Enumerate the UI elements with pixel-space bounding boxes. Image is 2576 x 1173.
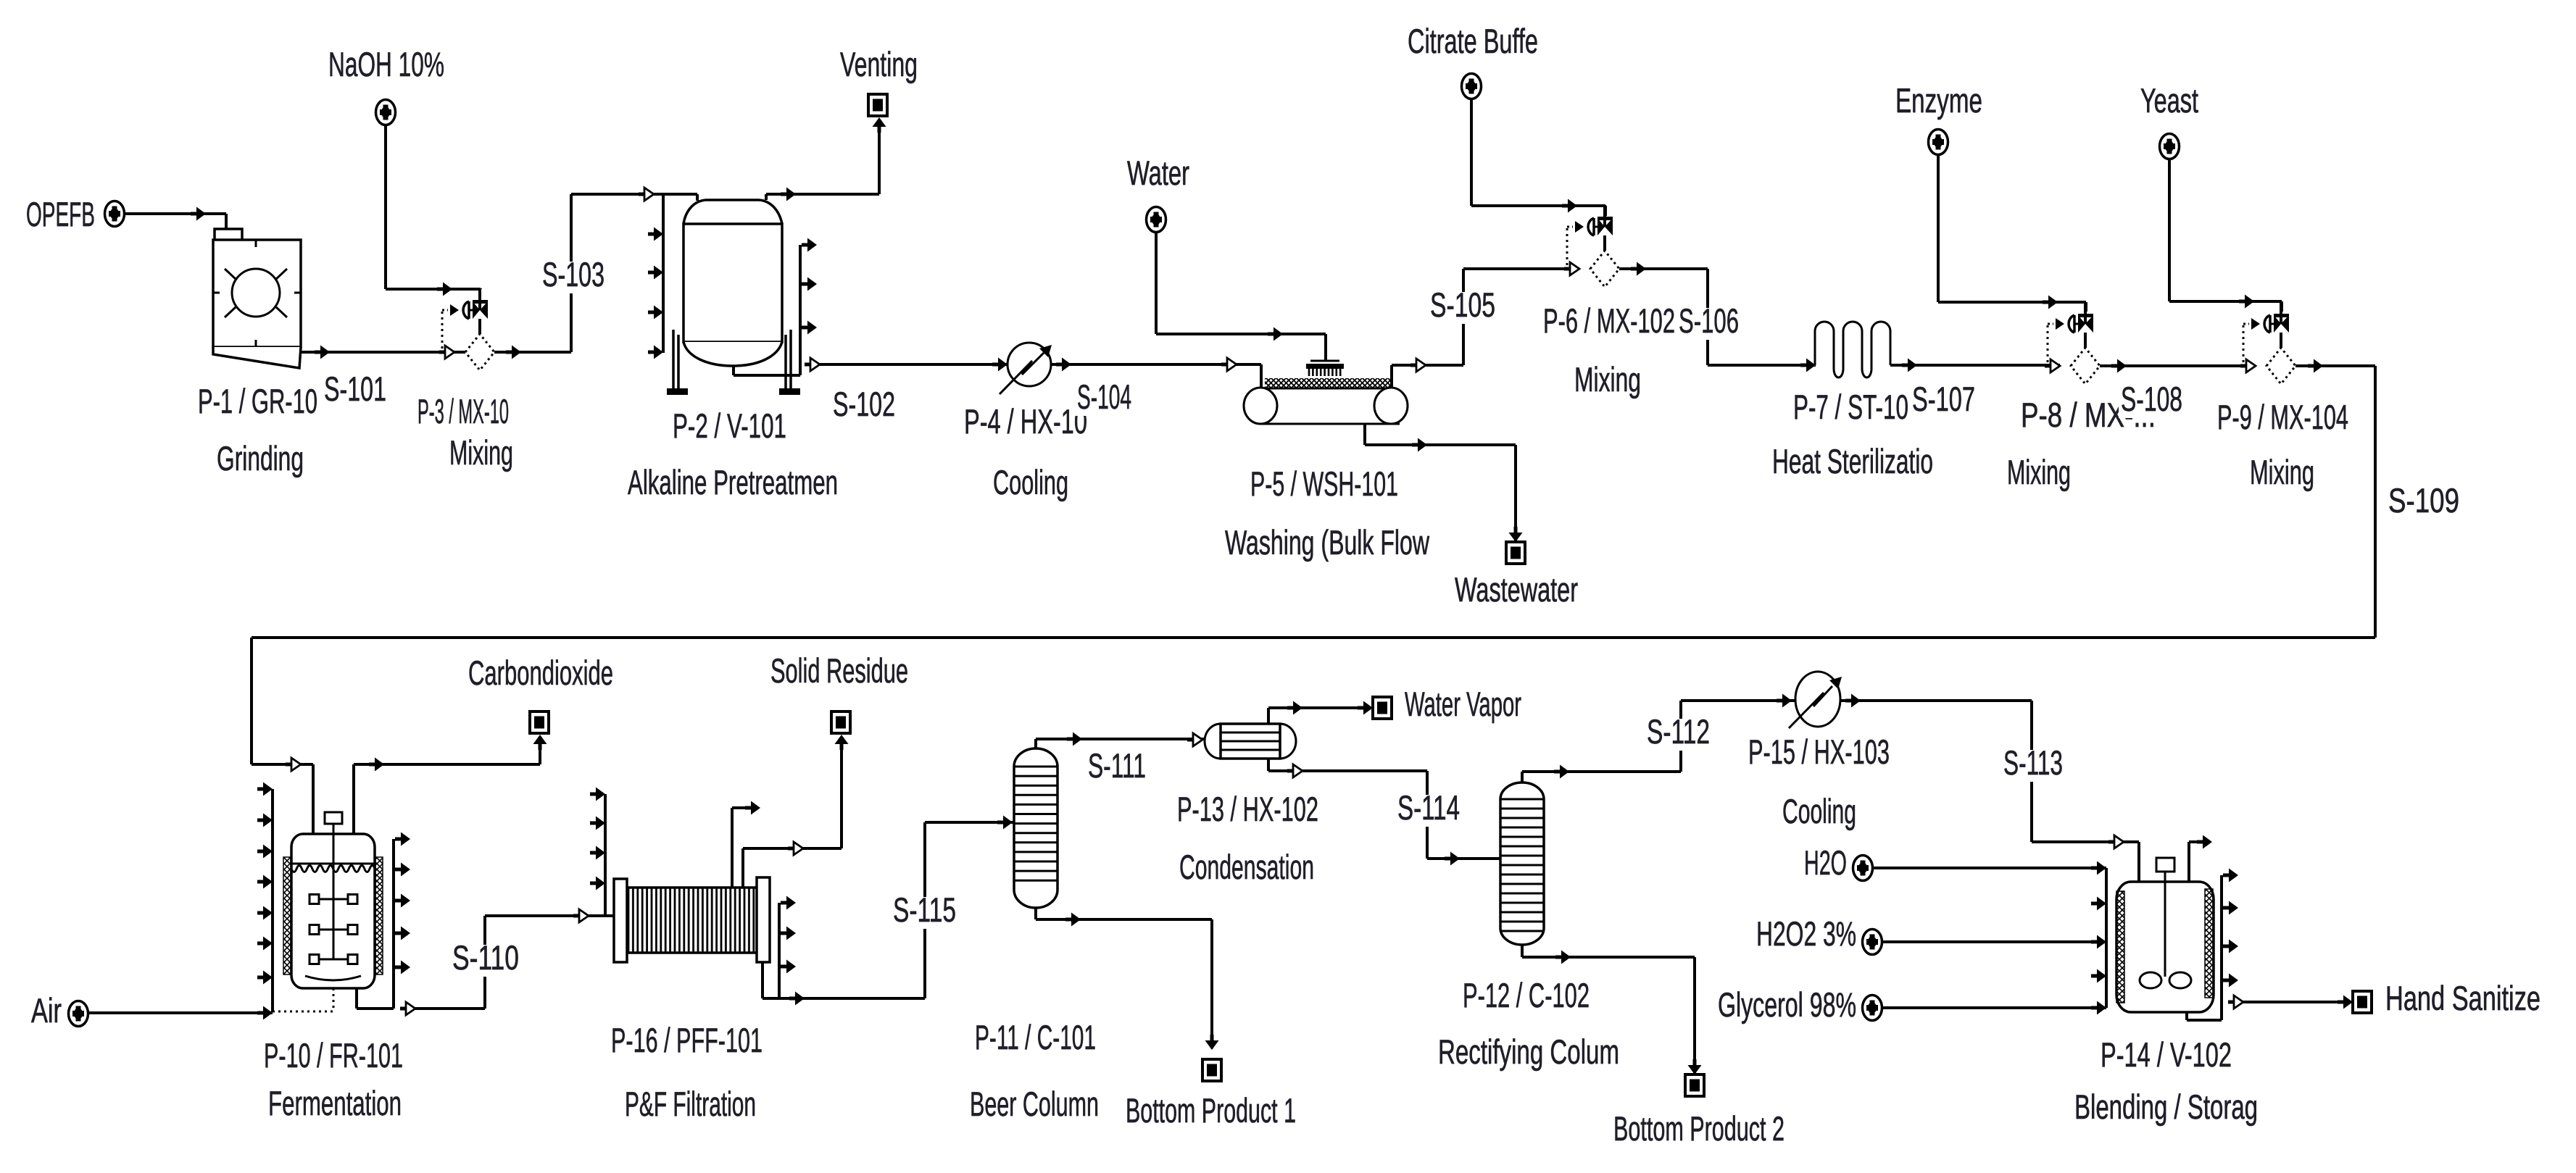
stream Hand Sanitizer line bbox=[2228, 995, 2353, 1009]
source OPEFB bbox=[105, 201, 125, 227]
svg-text:S-109: S-109 bbox=[2388, 481, 2459, 519]
svg-text:Hand Sanitize: Hand Sanitize bbox=[2385, 979, 2540, 1017]
P-14 inlet port column bbox=[2105, 868, 2108, 1008]
label Mixing bbox=[1574, 360, 1641, 398]
svg-text:P&F Filtration: P&F Filtration bbox=[625, 1085, 756, 1123]
P-5 inlet bbox=[1221, 363, 1228, 367]
stream S-104 bbox=[1051, 363, 1237, 366]
label P-13 / HX-102 bbox=[1177, 790, 1318, 828]
label P-5 / WSH-101 bbox=[1250, 464, 1398, 503]
P-5 belt and rollers bbox=[1265, 378, 1392, 388]
label Blending / Storag bbox=[2074, 1088, 2258, 1126]
svg-text:OPEFB: OPEFB bbox=[26, 195, 95, 233]
label P-1 / GR-10 bbox=[198, 382, 317, 420]
label Bottom Product 2 bbox=[1613, 1109, 1784, 1148]
svg-text:Grinding: Grinding bbox=[217, 439, 304, 477]
label Citrate Buffe bbox=[1408, 22, 1538, 60]
stream S-113 bbox=[1840, 701, 2139, 882]
P-16 top port arrow bbox=[731, 808, 734, 888]
label Solid Residue bbox=[770, 651, 908, 690]
svg-text:Bottom Product 1: Bottom Product 1 bbox=[1126, 1091, 1296, 1130]
sink Wastewater bbox=[1506, 542, 1525, 564]
P-14 motor and shaft bbox=[2156, 858, 2174, 872]
stream Carbondioxide line bbox=[354, 735, 547, 772]
stream Water Vapor line bbox=[1268, 701, 1373, 725]
source Glycerol 98% bbox=[1863, 995, 1882, 1021]
source Citrate Buffer bbox=[1462, 74, 1482, 99]
label P-8 / MX-... bbox=[2021, 396, 2156, 434]
svg-text:S-105: S-105 bbox=[1430, 285, 1495, 324]
label P-2 / V-101 bbox=[673, 406, 786, 445]
svg-text:P-2 / V-101: P-2 / V-101 bbox=[673, 406, 786, 445]
svg-text:Mixing: Mixing bbox=[2250, 453, 2314, 491]
P-2 legs bbox=[672, 330, 675, 388]
label H2O bbox=[1804, 843, 1847, 882]
label Grinding bbox=[217, 439, 304, 477]
P-2 outlet port column bbox=[799, 245, 802, 375]
mixer P-3 / MX-101 bbox=[442, 288, 494, 370]
svg-text:NaOH 10%: NaOH 10% bbox=[328, 45, 444, 83]
P-10 vent stub bbox=[352, 764, 355, 834]
svg-text:P-14 / V-102: P-14 / V-102 bbox=[2101, 1035, 2232, 1074]
stream S-107 bbox=[1890, 359, 2060, 372]
stream Solid Residue line bbox=[743, 735, 849, 888]
svg-text:Yeast: Yeast bbox=[2140, 81, 2198, 120]
stream S-106 bbox=[1619, 262, 1816, 366]
label S-105 bbox=[1428, 285, 1497, 324]
wire Citrate Buffer feed bbox=[1471, 99, 1605, 216]
stream S-108 bbox=[2100, 359, 2256, 373]
svg-text:S-112: S-112 bbox=[1647, 712, 1710, 751]
svg-text:Glycerol 98%: Glycerol 98% bbox=[1718, 985, 1856, 1024]
label Hand Sanitize bbox=[2385, 979, 2540, 1017]
label S-106 bbox=[1677, 301, 1741, 340]
svg-text:P-5 / WSH-101: P-5 / WSH-101 bbox=[1250, 464, 1398, 503]
sink Carbondioxide bbox=[530, 711, 549, 733]
label Carbondioxide bbox=[468, 654, 613, 692]
filter P-16 / PFF-101 bbox=[590, 788, 796, 999]
P-2 bottom outlet bbox=[732, 366, 735, 375]
svg-text:Citrate Buffe: Citrate Buffe bbox=[1408, 22, 1538, 60]
label P-4 / HX-10 bbox=[964, 402, 1087, 441]
svg-text:S-101: S-101 bbox=[324, 370, 386, 408]
label Water bbox=[1127, 154, 1189, 192]
label Yeast bbox=[2140, 81, 2198, 120]
svg-text:Beer Column: Beer Column bbox=[970, 1085, 1099, 1123]
P-10 vessel body bbox=[291, 834, 375, 988]
svg-text:Bottom Product 2: Bottom Product 2 bbox=[1613, 1109, 1784, 1148]
sink Hand Sanitizer bbox=[2353, 991, 2372, 1013]
condenser P-13 / HX-102 bbox=[1205, 724, 1296, 759]
label Cooling bbox=[1782, 792, 1856, 830]
stream S-109 bbox=[252, 359, 2375, 835]
svg-text:S-113: S-113 bbox=[2003, 743, 2063, 782]
wire H2O feed bbox=[1873, 861, 2106, 875]
wire Air feed bbox=[88, 1006, 273, 1020]
svg-text:Cooling: Cooling bbox=[1782, 792, 1856, 830]
label P-3 / MX-10 bbox=[417, 392, 509, 430]
stream Venting line bbox=[766, 117, 886, 201]
P-14 bottom outlet bbox=[2185, 1012, 2188, 1020]
label Mixing bbox=[449, 433, 513, 472]
svg-text:S-106: S-106 bbox=[1679, 301, 1739, 340]
label S-101 bbox=[322, 370, 389, 408]
svg-text:Rectifying Colum: Rectifying Colum bbox=[1438, 1032, 1619, 1071]
svg-text:P-12 / C-102: P-12 / C-102 bbox=[1463, 976, 1590, 1014]
stream S-105 bbox=[1392, 269, 1579, 388]
label P&F Filtration bbox=[625, 1085, 756, 1123]
column P-12 / C-102 (Rectifying Column) bbox=[1500, 782, 1544, 945]
mixer P-6 / MX-102 bbox=[1567, 205, 1619, 287]
label Air bbox=[31, 991, 62, 1030]
stream Bottom Product 1 line bbox=[1036, 908, 1219, 1050]
label S-110 bbox=[450, 938, 521, 977]
stream S-115 bbox=[763, 816, 1014, 1006]
label Mixing bbox=[2250, 453, 2314, 491]
wire OPEFB to grinder bbox=[125, 207, 226, 231]
stream S-110 bbox=[400, 909, 614, 1015]
node P-9 inlet arrow bbox=[2240, 359, 2256, 372]
sterilizer P-7 / ST-101 bbox=[1800, 322, 1890, 377]
svg-text:P-16 / PFF-101: P-16 / PFF-101 bbox=[611, 1021, 763, 1059]
svg-text:P-7 / ST-10: P-7 / ST-10 bbox=[1793, 388, 1908, 426]
label Washing (Bulk Flow bbox=[1225, 523, 1430, 562]
P-16 body bbox=[626, 888, 757, 953]
svg-text:P-10 / FR-101: P-10 / FR-101 bbox=[264, 1036, 403, 1074]
label S-104 bbox=[1075, 377, 1134, 416]
label H2O2 3% bbox=[1756, 914, 1856, 953]
mixer P-8 / MX-103 bbox=[2048, 302, 2100, 384]
svg-text:Heat Sterilizatio: Heat Sterilizatio bbox=[1772, 442, 1933, 480]
label Condensation bbox=[1179, 848, 1314, 886]
svg-text:Blending / Storag: Blending / Storag bbox=[2074, 1088, 2258, 1126]
wire H2O2 feed bbox=[1882, 935, 2106, 949]
svg-text:P-9 / MX-104: P-9 / MX-104 bbox=[2217, 398, 2348, 436]
svg-text:Solid Residue: Solid Residue bbox=[770, 651, 908, 690]
P-5 spray brush bbox=[1310, 360, 1339, 362]
P-14 outlet port column bbox=[2220, 875, 2223, 1020]
label Venting bbox=[840, 45, 918, 83]
source Water bbox=[1147, 207, 1166, 233]
P-10 bottom outlet bbox=[355, 988, 358, 1009]
svg-text:Mixing: Mixing bbox=[1574, 360, 1641, 398]
stream S-111 bbox=[1036, 732, 1206, 749]
P-14 vent stub bbox=[2187, 842, 2190, 882]
source Yeast bbox=[2160, 134, 2180, 159]
label S-108 bbox=[2119, 380, 2185, 418]
svg-text:Wastewater: Wastewater bbox=[1455, 570, 1578, 609]
sink Bottom Product 2 bbox=[1685, 1074, 1704, 1096]
label Enzyme bbox=[1895, 81, 1982, 120]
mixer P-9 / MX-104 bbox=[2243, 302, 2295, 384]
svg-text:P-6 / MX-102: P-6 / MX-102 bbox=[1543, 301, 1675, 340]
P-16 outlet port column bbox=[778, 903, 781, 998]
grinder P-1 / GR-101 bbox=[213, 229, 301, 368]
svg-text:Air: Air bbox=[31, 991, 62, 1030]
stream Bottom Product 2 line bbox=[1522, 945, 1702, 1074]
svg-text:S-110: S-110 bbox=[452, 938, 519, 977]
svg-text:Water: Water bbox=[1127, 154, 1189, 192]
P-2 vessel body bbox=[696, 194, 699, 201]
stream S-112 bbox=[1522, 694, 1795, 783]
svg-text:P-13 / HX-102: P-13 / HX-102 bbox=[1177, 790, 1318, 828]
svg-text:Condensation: Condensation bbox=[1179, 848, 1314, 886]
label Rectifying Colum bbox=[1438, 1032, 1619, 1071]
P-10 outlet port column bbox=[392, 839, 395, 1009]
svg-text:S-114: S-114 bbox=[1397, 788, 1460, 827]
label Bottom Product 1 bbox=[1126, 1091, 1296, 1130]
P-14 propeller bbox=[2140, 972, 2161, 988]
P-16 inlet port column bbox=[604, 794, 607, 916]
wire Water feed bbox=[1156, 233, 1326, 360]
wire Yeast feed bbox=[2169, 159, 2282, 312]
label S-109 bbox=[2386, 481, 2461, 519]
stream S-114 bbox=[1268, 759, 1500, 866]
source Enzyme bbox=[1929, 130, 1948, 155]
P-10 motor and shaft bbox=[325, 812, 342, 824]
P-10 sparger dotted line bbox=[333, 988, 335, 1011]
source Air bbox=[69, 1001, 88, 1027]
svg-text:S-107: S-107 bbox=[1912, 380, 1975, 418]
label Glycerol 98% bbox=[1718, 985, 1856, 1024]
sink Bottom Product 1 bbox=[1202, 1059, 1221, 1081]
label S-114 bbox=[1395, 788, 1462, 827]
label P-12 / C-102 bbox=[1463, 976, 1590, 1014]
wire Enzyme feed bbox=[1938, 155, 2086, 312]
sink Venting bbox=[868, 94, 887, 116]
P-10 inlet port column bbox=[271, 789, 274, 1012]
wire NaOH feed bbox=[386, 125, 481, 296]
svg-text:P-15 / HX-103: P-15 / HX-103 bbox=[1748, 732, 1890, 771]
svg-text:H2O: H2O bbox=[1804, 843, 1847, 882]
label Heat Sterilizatio bbox=[1772, 442, 1933, 480]
label S-107 bbox=[1910, 380, 1977, 418]
label Cooling bbox=[993, 463, 1068, 501]
svg-text:Washing (Bulk Flow: Washing (Bulk Flow bbox=[1225, 523, 1430, 562]
label S-115 bbox=[891, 890, 958, 929]
svg-text:Alkaline Pretreatmen: Alkaline Pretreatmen bbox=[628, 463, 838, 501]
node P-6 inlet arrow bbox=[1564, 262, 1579, 275]
label S-113 bbox=[2001, 743, 2065, 782]
svg-text:Mixing: Mixing bbox=[449, 433, 513, 472]
stream Wastewater line bbox=[1365, 423, 1523, 542]
svg-text:Carbondioxide: Carbondioxide bbox=[468, 654, 613, 692]
svg-text:P-11 / C-101: P-11 / C-101 bbox=[975, 1018, 1096, 1056]
fermenter P-10 / FR-101 bbox=[257, 764, 410, 1012]
label NaOH 10% bbox=[328, 45, 444, 83]
label Beer Column bbox=[970, 1085, 1099, 1123]
wire Glycerol feed bbox=[1882, 1001, 2106, 1015]
source H2O bbox=[1853, 856, 1873, 881]
label P-11 / C-101 bbox=[975, 1018, 1096, 1056]
label S-111 bbox=[1086, 746, 1148, 785]
stream S-101 bbox=[301, 346, 465, 359]
label Fermentation bbox=[268, 1084, 402, 1122]
washer P-5 / WSH-101 bbox=[1221, 358, 1408, 424]
svg-text:H2O2 3%: H2O2 3% bbox=[1756, 914, 1856, 953]
svg-text:S-102: S-102 bbox=[833, 385, 895, 423]
column P-11 / C-101 (Beer Column) bbox=[1014, 748, 1058, 908]
label Wastewater bbox=[1455, 570, 1578, 609]
node P-8 inlet arrow bbox=[2045, 359, 2060, 372]
label P-7 / ST-10 bbox=[1793, 388, 1908, 426]
vessel P-14 / V-102 (Blending/Storage) bbox=[2091, 835, 2238, 1021]
source NaOH 10% bbox=[376, 100, 396, 125]
svg-text:S-115: S-115 bbox=[893, 890, 956, 929]
P-14 jacket bbox=[2116, 891, 2124, 1003]
svg-text:Fermentation: Fermentation bbox=[268, 1084, 402, 1122]
sink Water Vapor bbox=[1373, 697, 1392, 719]
sink Solid Residue bbox=[831, 711, 850, 733]
vessel P-2 / V-101 bbox=[648, 194, 817, 395]
label S-112 bbox=[1645, 712, 1712, 751]
svg-text:S-108: S-108 bbox=[2121, 380, 2182, 418]
node P-3 inlet arrow bbox=[439, 346, 465, 359]
svg-text:Water Vapor: Water Vapor bbox=[1405, 685, 1521, 723]
source H2O2 3% bbox=[1863, 930, 1882, 955]
svg-text:Venting: Venting bbox=[840, 45, 918, 83]
heat exchanger P-15 / HX-103 bbox=[1789, 672, 1861, 728]
P-14 vessel body bbox=[2116, 882, 2214, 1012]
label S-102 bbox=[831, 385, 897, 423]
svg-text:P-3 / MX-10: P-3 / MX-10 bbox=[417, 392, 509, 430]
label P-15 / HX-103 bbox=[1748, 732, 1890, 771]
label Mixing bbox=[2007, 453, 2071, 491]
label OPEFB bbox=[26, 195, 95, 233]
label P-9 / MX-104 bbox=[2217, 398, 2348, 436]
svg-text:S-103: S-103 bbox=[542, 255, 604, 293]
svg-text:P-1 / GR-10: P-1 / GR-10 bbox=[198, 382, 317, 420]
heat exchanger P-4 / HX-101 bbox=[992, 343, 1071, 394]
label P-14 / V-102 bbox=[2101, 1035, 2232, 1074]
label Water Vapor bbox=[1405, 685, 1521, 723]
svg-text:S-104: S-104 bbox=[1077, 377, 1131, 416]
stream S-102 bbox=[805, 358, 1007, 371]
P-10 impellers bbox=[319, 898, 348, 901]
stream S-103 bbox=[494, 188, 697, 359]
label S-103 bbox=[540, 255, 607, 293]
svg-text:P-4 / HX-10: P-4 / HX-10 bbox=[964, 402, 1087, 441]
P-2 inlet port column bbox=[662, 194, 665, 353]
svg-text:Enzyme: Enzyme bbox=[1895, 81, 1982, 120]
svg-text:Cooling: Cooling bbox=[993, 463, 1068, 501]
svg-text:Mixing: Mixing bbox=[2007, 453, 2071, 491]
label Alkaline Pretreatmen bbox=[628, 463, 838, 501]
svg-text:S-111: S-111 bbox=[1088, 746, 1146, 785]
label P-10 / FR-101 bbox=[264, 1036, 403, 1074]
label P-16 / PFF-101 bbox=[611, 1021, 763, 1059]
label P-6 / MX-102 bbox=[1541, 301, 1677, 340]
P-10 jacket bbox=[283, 857, 291, 974]
